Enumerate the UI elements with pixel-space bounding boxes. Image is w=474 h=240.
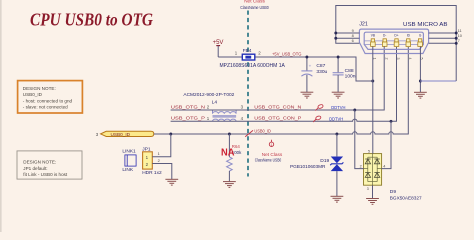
capacitor C87 (polarized) [301,57,327,92]
wire D9 right pin from CON_P [382,121,391,168]
svg-text:USB0_ID: USB0_ID [111,132,131,137]
ground (R64) [223,182,236,188]
svg-text:2: 2 [360,165,362,169]
svg-text:USB MICRO AB: USB MICRO AB [403,22,448,28]
svg-text:2: 2 [158,158,160,163]
wire shield link [420,80,456,82]
svg-text:1: 1 [158,151,160,156]
ground (D19) [331,196,344,202]
J21 contact 1 (VB) [371,33,377,59]
connector J21 outline [359,29,428,53]
junction (right shield 43.3) [455,42,458,45]
svg-text:C88: C88 [345,68,354,74]
ground (C87) [301,92,314,98]
junction (right shield 33) [455,32,458,35]
wire J21 pin2 (D-) [383,45,385,48]
page left edge [0,0,2,232]
svg-text:NA: NA [221,147,235,158]
svg-text:ACM2012-900-2P-T002: ACM2012-900-2P-T002 [183,92,234,98]
power symbol +5V [213,40,224,57]
junction (pin5/shield) [419,80,422,83]
wire D9 bottom to gnd [372,185,374,198]
svg-text:3: 3 [367,187,369,191]
ground (JP1) [165,179,178,185]
svg-text:Net Class: Net Class [244,0,265,4]
svg-text:USB0_ID: USB0_ID [254,128,271,133]
svg-text:USB0_ID: USB0_ID [23,92,43,97]
svg-text:3: 3 [396,58,400,60]
svg-text:DDTVH: DDTVH [329,117,343,122]
svg-text:DDTVH: DDTVH [331,105,345,110]
ground (shield) [414,92,427,98]
wire shield row 8 [336,37,360,39]
svg-text:7: 7 [458,38,460,43]
ESD array D9 [360,150,386,191]
wire D9 left pin from CON_N [355,110,364,169]
link symbol LINK1 [122,148,136,173]
J21 contact 4 (ID) [406,33,412,59]
J21 contact 3 (D+) [394,33,400,59]
junction (right shield 38.2) [455,37,458,40]
jumper JP1 [142,147,159,170]
junction (D19 tap) [335,133,338,136]
class boundary dashed line [247,11,249,177]
svg-text:+5V_USB_OTG: +5V_USB_OTG [272,52,302,57]
design note box 2 [17,151,82,179]
net class marker top [240,0,269,10]
svg-text:1: 1 [271,143,273,147]
junction (C88 tap) [337,56,340,59]
wire J21 pin1 VBUS [372,46,374,81]
resistor R64 (not assembled) [221,134,242,181]
junction (C87 tap) [305,56,308,59]
J21 contact 2 (D-) [382,33,388,59]
J21 contact 5 (G) [418,33,424,59]
junction (VBUS pin1) [371,80,374,83]
svg-text:D9: D9 [390,189,397,195]
svg-text:fit Link - USB0 is host: fit Link - USB0 is host [23,172,68,177]
svg-text:USB_OTG_CON_N: USB_OTG_CON_N [254,104,301,109]
svg-text:L4: L4 [212,99,218,105]
svg-text:- slave: not connected: - slave: not connected [23,105,68,110]
common-mode choke L4 [207,99,244,121]
wire JP1 pin2 to gnd [152,164,172,180]
svg-text:USB_OTG_CON_P: USB_OTG_CON_P [254,116,301,121]
class-change slash [245,130,253,136]
svg-text:PGB1010603MR: PGB1010603MR [290,164,326,169]
svg-text:ClassName USB0: ClassName USB0 [255,157,282,162]
wire shield row 9 [336,32,360,34]
svg-text:HDR 1x2: HDR 1x2 [142,170,162,176]
svg-text:- host: connected to gnd: - host: connected to gnd [23,98,73,103]
wire USB_OTG_P / CON_P (hop at x=354.8) [171,47,397,121]
wire D9 top from VBUS [372,81,374,154]
svg-text:+5V: +5V [213,40,224,46]
junction (left shield 33) [334,32,337,35]
svg-text:4: 4 [383,165,385,169]
wire J21 pin5 to gnd [419,46,421,92]
wire shield row 11 [429,32,457,34]
svg-text:BGX50AE8327: BGX50AE8327 [390,195,422,200]
ground (C88) [332,92,345,98]
svg-text:6: 6 [352,38,354,43]
wire shield row 10 [429,37,457,39]
junction (CON_N to D9) [353,109,356,112]
svg-text:USB_OTG_P: USB_OTG_P [171,116,205,121]
svg-text:J21: J21 [359,22,368,28]
capacitor C88 [333,57,356,92]
svg-text:DESIGN NOTE:: DESIGN NOTE: [23,86,56,91]
svg-text:LINK1: LINK1 [122,148,136,154]
wire USB0_ID (hops at 354.8/372.8/391) [154,47,408,134]
svg-text:D-: D- [383,33,386,37]
junction (JP1 tap) [169,133,172,136]
junction (R64 tap) [228,133,231,136]
wire shield loop [336,6,456,82]
svg-text:LINK: LINK [122,167,133,173]
ground (D9) [366,199,379,205]
junction (CON_P to D9) [390,120,393,123]
probe marker on CON_N [314,104,324,111]
svg-text:MPZ1608S601A 600OHM 1A: MPZ1608S601A 600OHM 1A [220,63,286,69]
design note box 1 [18,81,83,113]
svg-text:FB4: FB4 [243,48,252,54]
svg-text:100n: 100n [345,74,356,80]
TVS diode D19 [290,134,343,196]
svg-text:ClassName USB0: ClassName USB0 [240,5,269,10]
svg-text:VB: VB [371,33,375,37]
wire USB_OTG_N / CON_N [171,47,385,110]
junction (left shield 38.2) [334,37,337,40]
port USB0_ID [96,131,154,137]
wire +5V to FB4 to caps [218,57,373,81]
svg-text:C87: C87 [316,63,325,69]
svg-text:330u: 330u [316,69,327,75]
probe marker on CON_P [312,115,322,122]
svg-text:CPU USB0 to OTG: CPU USB0 to OTG [30,10,153,30]
ferrite bead FB4 [235,48,261,60]
svg-text:USB_OTG_N: USB_OTG_N [171,104,205,109]
svg-text:D+: D+ [394,33,398,37]
svg-text:4: 4 [408,58,412,60]
net class marker (USB0) [255,140,283,163]
wire JP1 pin1 to ID net [152,134,171,157]
svg-text:JP1 default:: JP1 default: [23,166,47,171]
svg-text:+: + [309,64,312,69]
svg-text:DESIGN NOTE:: DESIGN NOTE: [23,160,56,165]
svg-text:2: 2 [384,58,388,60]
wire shield row 7 [429,42,457,44]
svg-text:5: 5 [368,150,370,154]
